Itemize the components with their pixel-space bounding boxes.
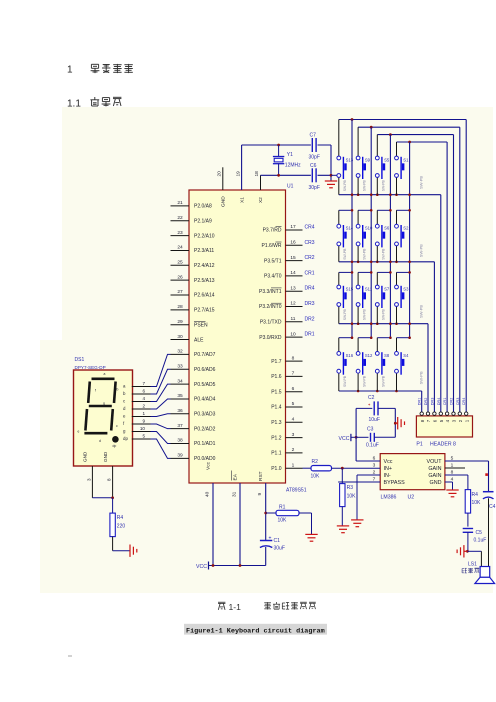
svg-text:EA: EA <box>233 473 239 480</box>
svg-text:VOUT: VOUT <box>427 459 443 465</box>
svg-text:S6: S6 <box>384 226 390 231</box>
svg-text:C4: C4 <box>489 504 496 510</box>
svg-text:40: 40 <box>205 491 211 497</box>
svg-text:CR1: CR1 <box>443 398 447 406</box>
svg-text:DS1: DS1 <box>75 357 85 363</box>
svg-text:AT89S51: AT89S51 <box>286 488 307 494</box>
svg-text:P1.3: P1.3 <box>271 420 282 426</box>
svg-text:12: 12 <box>290 301 296 307</box>
svg-text:R1: R1 <box>279 505 286 511</box>
svg-text:11: 11 <box>291 316 296 322</box>
svg-text:R4: R4 <box>117 515 124 521</box>
svg-text:+: + <box>269 536 272 542</box>
svg-text:Figure1-1 Keyboard circuit dia: Figure1-1 Keyboard circuit diagram <box>186 628 325 636</box>
svg-text:4: 4 <box>292 417 295 423</box>
svg-text:RST: RST <box>258 471 264 481</box>
svg-text:P0.1/AD1: P0.1/AD1 <box>194 441 216 447</box>
svg-text:CR2: CR2 <box>305 255 315 261</box>
svg-text:22: 22 <box>177 215 183 221</box>
svg-text:Y1: Y1 <box>287 152 293 158</box>
svg-text:dp: dp <box>123 436 128 441</box>
svg-text:P2.7/A15: P2.7/A15 <box>194 308 215 314</box>
svg-text:e: e <box>78 430 80 434</box>
svg-text:SW-PB: SW-PB <box>382 375 386 387</box>
svg-text:36: 36 <box>177 408 183 414</box>
svg-text:S2: S2 <box>403 226 409 231</box>
svg-text:GAIN: GAIN <box>428 466 441 472</box>
svg-text:P1.0: P1.0 <box>271 466 282 472</box>
svg-text:1: 1 <box>142 411 145 416</box>
svg-text:2: 2 <box>142 404 145 409</box>
svg-text:P0.6/AD6: P0.6/AD6 <box>194 367 216 373</box>
svg-text:GND: GND <box>430 480 442 486</box>
svg-text:10K: 10K <box>472 500 482 506</box>
svg-text:32: 32 <box>177 349 183 355</box>
svg-text:S5: S5 <box>384 157 390 162</box>
svg-text:SW-PB: SW-PB <box>343 375 347 387</box>
svg-text:GAIN: GAIN <box>428 473 441 479</box>
svg-text:26: 26 <box>177 274 183 280</box>
svg-text:1-1: 1-1 <box>229 602 242 612</box>
svg-text:P3.5/T1: P3.5/T1 <box>264 258 282 264</box>
svg-text:15: 15 <box>290 255 296 261</box>
svg-text:30uF: 30uF <box>274 546 285 552</box>
svg-text:CR3: CR3 <box>456 398 460 406</box>
svg-text:IN-: IN- <box>384 473 391 479</box>
svg-text:R3: R3 <box>347 485 354 491</box>
svg-text:9: 9 <box>257 493 263 496</box>
svg-text:5: 5 <box>292 401 295 407</box>
svg-text:31: 31 <box>232 491 238 497</box>
svg-text:GND: GND <box>221 196 227 207</box>
svg-text:IN+: IN+ <box>384 466 393 472</box>
svg-text:29: 29 <box>177 319 183 325</box>
svg-text:S13: S13 <box>346 157 354 162</box>
svg-text:P3.7/RD: P3.7/RD <box>263 228 282 234</box>
svg-text:BYPASS: BYPASS <box>384 480 406 486</box>
svg-text:DR4: DR4 <box>305 286 315 292</box>
svg-text:DR1: DR1 <box>305 332 315 338</box>
svg-text:1: 1 <box>67 65 73 76</box>
svg-text:Vcc: Vcc <box>206 461 212 470</box>
svg-text:20: 20 <box>217 171 223 177</box>
svg-text:3: 3 <box>292 432 295 438</box>
svg-text:DR2: DR2 <box>305 316 315 322</box>
svg-text:P0.3/AD3: P0.3/AD3 <box>194 412 216 418</box>
svg-text:37: 37 <box>177 423 183 429</box>
svg-text:P2.1/A9: P2.1/A9 <box>194 218 212 224</box>
svg-text:27: 27 <box>177 289 183 295</box>
svg-text:c: c <box>116 424 118 428</box>
svg-text:SW-PB: SW-PB <box>343 248 347 260</box>
svg-text:S16: S16 <box>346 353 354 358</box>
svg-text:13: 13 <box>290 285 296 291</box>
svg-text:10K: 10K <box>278 518 288 524</box>
svg-text:P3.2/INT0: P3.2/INT0 <box>259 304 282 310</box>
svg-text:P1.7: P1.7 <box>271 359 282 365</box>
svg-text:34: 34 <box>177 378 183 384</box>
svg-text:10K: 10K <box>311 474 321 480</box>
svg-text:12MHz: 12MHz <box>285 163 301 169</box>
svg-text:P0.5/AD5: P0.5/AD5 <box>194 382 216 388</box>
svg-text:P1.4: P1.4 <box>271 405 282 411</box>
svg-text:P3.0/RXD: P3.0/RXD <box>259 335 282 341</box>
svg-text:9: 9 <box>142 419 145 424</box>
svg-text:DPY7-SEG-DP: DPY7-SEG-DP <box>75 365 106 370</box>
svg-text:21: 21 <box>177 200 183 206</box>
svg-text:C5: C5 <box>476 530 483 536</box>
svg-text:VCC: VCC <box>339 436 350 442</box>
svg-text:PSEN: PSEN <box>194 322 208 328</box>
svg-text:30pF: 30pF <box>309 155 320 161</box>
svg-text:P0.4/AD4: P0.4/AD4 <box>194 397 216 403</box>
svg-text:SW-PB: SW-PB <box>362 248 366 260</box>
svg-text:33: 33 <box>177 363 183 369</box>
svg-text:0.1uF: 0.1uF <box>474 538 487 544</box>
svg-text:6: 6 <box>142 389 145 394</box>
svg-text:S4: S4 <box>403 353 409 358</box>
svg-text:0.1uF: 0.1uF <box>366 443 379 449</box>
svg-text:P1: P1 <box>416 442 422 448</box>
svg-text:30: 30 <box>177 334 183 340</box>
svg-text:38: 38 <box>177 438 183 444</box>
svg-text:DR3: DR3 <box>430 398 434 406</box>
svg-text:P2.0/A8: P2.0/A8 <box>194 204 212 210</box>
svg-text:b: b <box>117 388 119 392</box>
svg-text:16: 16 <box>290 240 296 246</box>
svg-text:7: 7 <box>292 371 295 377</box>
svg-text:U2: U2 <box>408 495 415 501</box>
svg-text:S7: S7 <box>384 286 390 291</box>
svg-text:S9: S9 <box>365 157 371 162</box>
svg-text:DR3: DR3 <box>305 301 315 307</box>
svg-text:R2: R2 <box>312 459 319 465</box>
svg-text:28: 28 <box>177 304 183 310</box>
svg-text:X1: X1 <box>239 197 245 203</box>
svg-text:S8: S8 <box>384 353 390 358</box>
svg-text:P3.3/INT1: P3.3/INT1 <box>259 289 282 295</box>
svg-text:U1: U1 <box>287 184 294 190</box>
svg-text:SW-PB: SW-PB <box>419 176 424 189</box>
svg-text:P1.2: P1.2 <box>271 435 282 441</box>
svg-text:R4: R4 <box>472 492 479 498</box>
svg-text:S3: S3 <box>403 286 409 291</box>
svg-text:GND: GND <box>103 451 108 462</box>
svg-text:SW-PB: SW-PB <box>343 309 347 321</box>
svg-text:VCC: VCC <box>196 564 207 570</box>
svg-text:g: g <box>103 402 105 406</box>
svg-text:d: d <box>99 439 101 443</box>
svg-text:P0.0/AD0: P0.0/AD0 <box>194 456 216 462</box>
svg-text:25: 25 <box>177 260 183 266</box>
svg-text:HEADER 8: HEADER 8 <box>430 442 456 448</box>
svg-text:SW-PB: SW-PB <box>343 180 347 192</box>
svg-text:S14: S14 <box>346 226 354 231</box>
svg-text:P3.4/T0: P3.4/T0 <box>264 274 282 280</box>
svg-text:P3.1/TXD: P3.1/TXD <box>260 320 282 326</box>
svg-text:P2.5/A13: P2.5/A13 <box>194 278 215 284</box>
svg-text:SW-PB: SW-PB <box>419 305 424 318</box>
svg-text:SW-PB: SW-PB <box>382 180 386 192</box>
svg-text:X2: X2 <box>258 197 264 203</box>
svg-text:DR4: DR4 <box>437 398 441 406</box>
svg-text:Vcc: Vcc <box>384 459 393 465</box>
svg-text:P2.3/A11: P2.3/A11 <box>194 248 214 254</box>
svg-text:4: 4 <box>142 396 145 401</box>
svg-text:C7: C7 <box>310 133 317 139</box>
svg-text:CR2: CR2 <box>450 398 454 406</box>
svg-text:1: 1 <box>292 462 295 468</box>
svg-text:23: 23 <box>177 230 183 236</box>
svg-text:CR4: CR4 <box>305 225 315 231</box>
svg-text:C6: C6 <box>310 163 317 169</box>
svg-text:S10: S10 <box>365 226 373 231</box>
svg-text:P1.1: P1.1 <box>271 451 282 457</box>
svg-text:ALE: ALE <box>194 337 204 343</box>
svg-text:8: 8 <box>107 478 112 481</box>
svg-text:P2.4/A12: P2.4/A12 <box>194 263 215 269</box>
svg-text:LM386: LM386 <box>381 495 397 501</box>
svg-text:P2.6/A14: P2.6/A14 <box>194 293 215 299</box>
svg-text:SW-PB: SW-PB <box>362 309 366 321</box>
svg-text:f: f <box>95 389 96 393</box>
svg-text:C1: C1 <box>274 538 281 544</box>
svg-text:19: 19 <box>235 171 241 177</box>
svg-text:6: 6 <box>292 386 295 392</box>
svg-text:GND: GND <box>83 451 88 462</box>
svg-text:CR3: CR3 <box>305 240 315 246</box>
svg-text:18: 18 <box>254 171 260 177</box>
svg-text:dp: dp <box>113 444 117 448</box>
svg-text:8: 8 <box>292 355 295 361</box>
svg-text:P2.2/A10: P2.2/A10 <box>194 233 215 239</box>
svg-text:10uF: 10uF <box>369 417 380 423</box>
svg-text:CR4: CR4 <box>462 398 466 406</box>
svg-text:S15: S15 <box>346 286 354 291</box>
svg-text:10: 10 <box>290 331 296 337</box>
svg-text:24: 24 <box>177 245 183 251</box>
svg-text:C2: C2 <box>368 395 375 401</box>
svg-text:3: 3 <box>373 463 376 469</box>
svg-text:P0.7/AD7: P0.7/AD7 <box>194 352 216 358</box>
svg-text:1.1: 1.1 <box>67 98 81 109</box>
svg-text:DR1: DR1 <box>418 398 422 406</box>
svg-text:35: 35 <box>177 393 183 399</box>
svg-text:CR1: CR1 <box>305 270 315 276</box>
svg-text:39: 39 <box>177 453 183 459</box>
svg-text:P1.6: P1.6 <box>271 374 282 380</box>
svg-text:a: a <box>104 372 106 376</box>
svg-text:S11: S11 <box>365 286 373 291</box>
svg-text:30pF: 30pF <box>309 185 320 191</box>
svg-text:P1.5: P1.5 <box>271 389 282 395</box>
svg-text:5: 5 <box>142 434 145 439</box>
svg-text:SW-PB: SW-PB <box>362 375 366 387</box>
svg-text:SW-PB: SW-PB <box>419 371 424 384</box>
svg-text:SW-PB: SW-PB <box>362 180 366 192</box>
svg-text:SW-PB: SW-PB <box>382 248 386 260</box>
svg-text:P1.6/WR: P1.6/WR <box>261 243 281 249</box>
svg-text:220: 220 <box>117 524 126 530</box>
svg-text:10: 10 <box>140 426 146 431</box>
svg-text:S1: S1 <box>403 157 409 162</box>
svg-text:SW-PB: SW-PB <box>419 244 424 257</box>
svg-text:P0.2/AD2: P0.2/AD2 <box>194 426 216 432</box>
svg-text:7: 7 <box>142 381 145 386</box>
svg-text:3: 3 <box>86 478 91 481</box>
svg-text:DR2: DR2 <box>424 398 428 406</box>
svg-text:LS1: LS1 <box>468 562 477 568</box>
svg-text:SW-PB: SW-PB <box>382 309 386 321</box>
svg-text:14: 14 <box>290 270 296 276</box>
svg-text:C3: C3 <box>367 427 374 433</box>
svg-text:S12: S12 <box>365 353 373 358</box>
svg-text:2: 2 <box>292 447 295 453</box>
svg-text:10K: 10K <box>347 494 357 500</box>
svg-text:17: 17 <box>290 224 296 230</box>
